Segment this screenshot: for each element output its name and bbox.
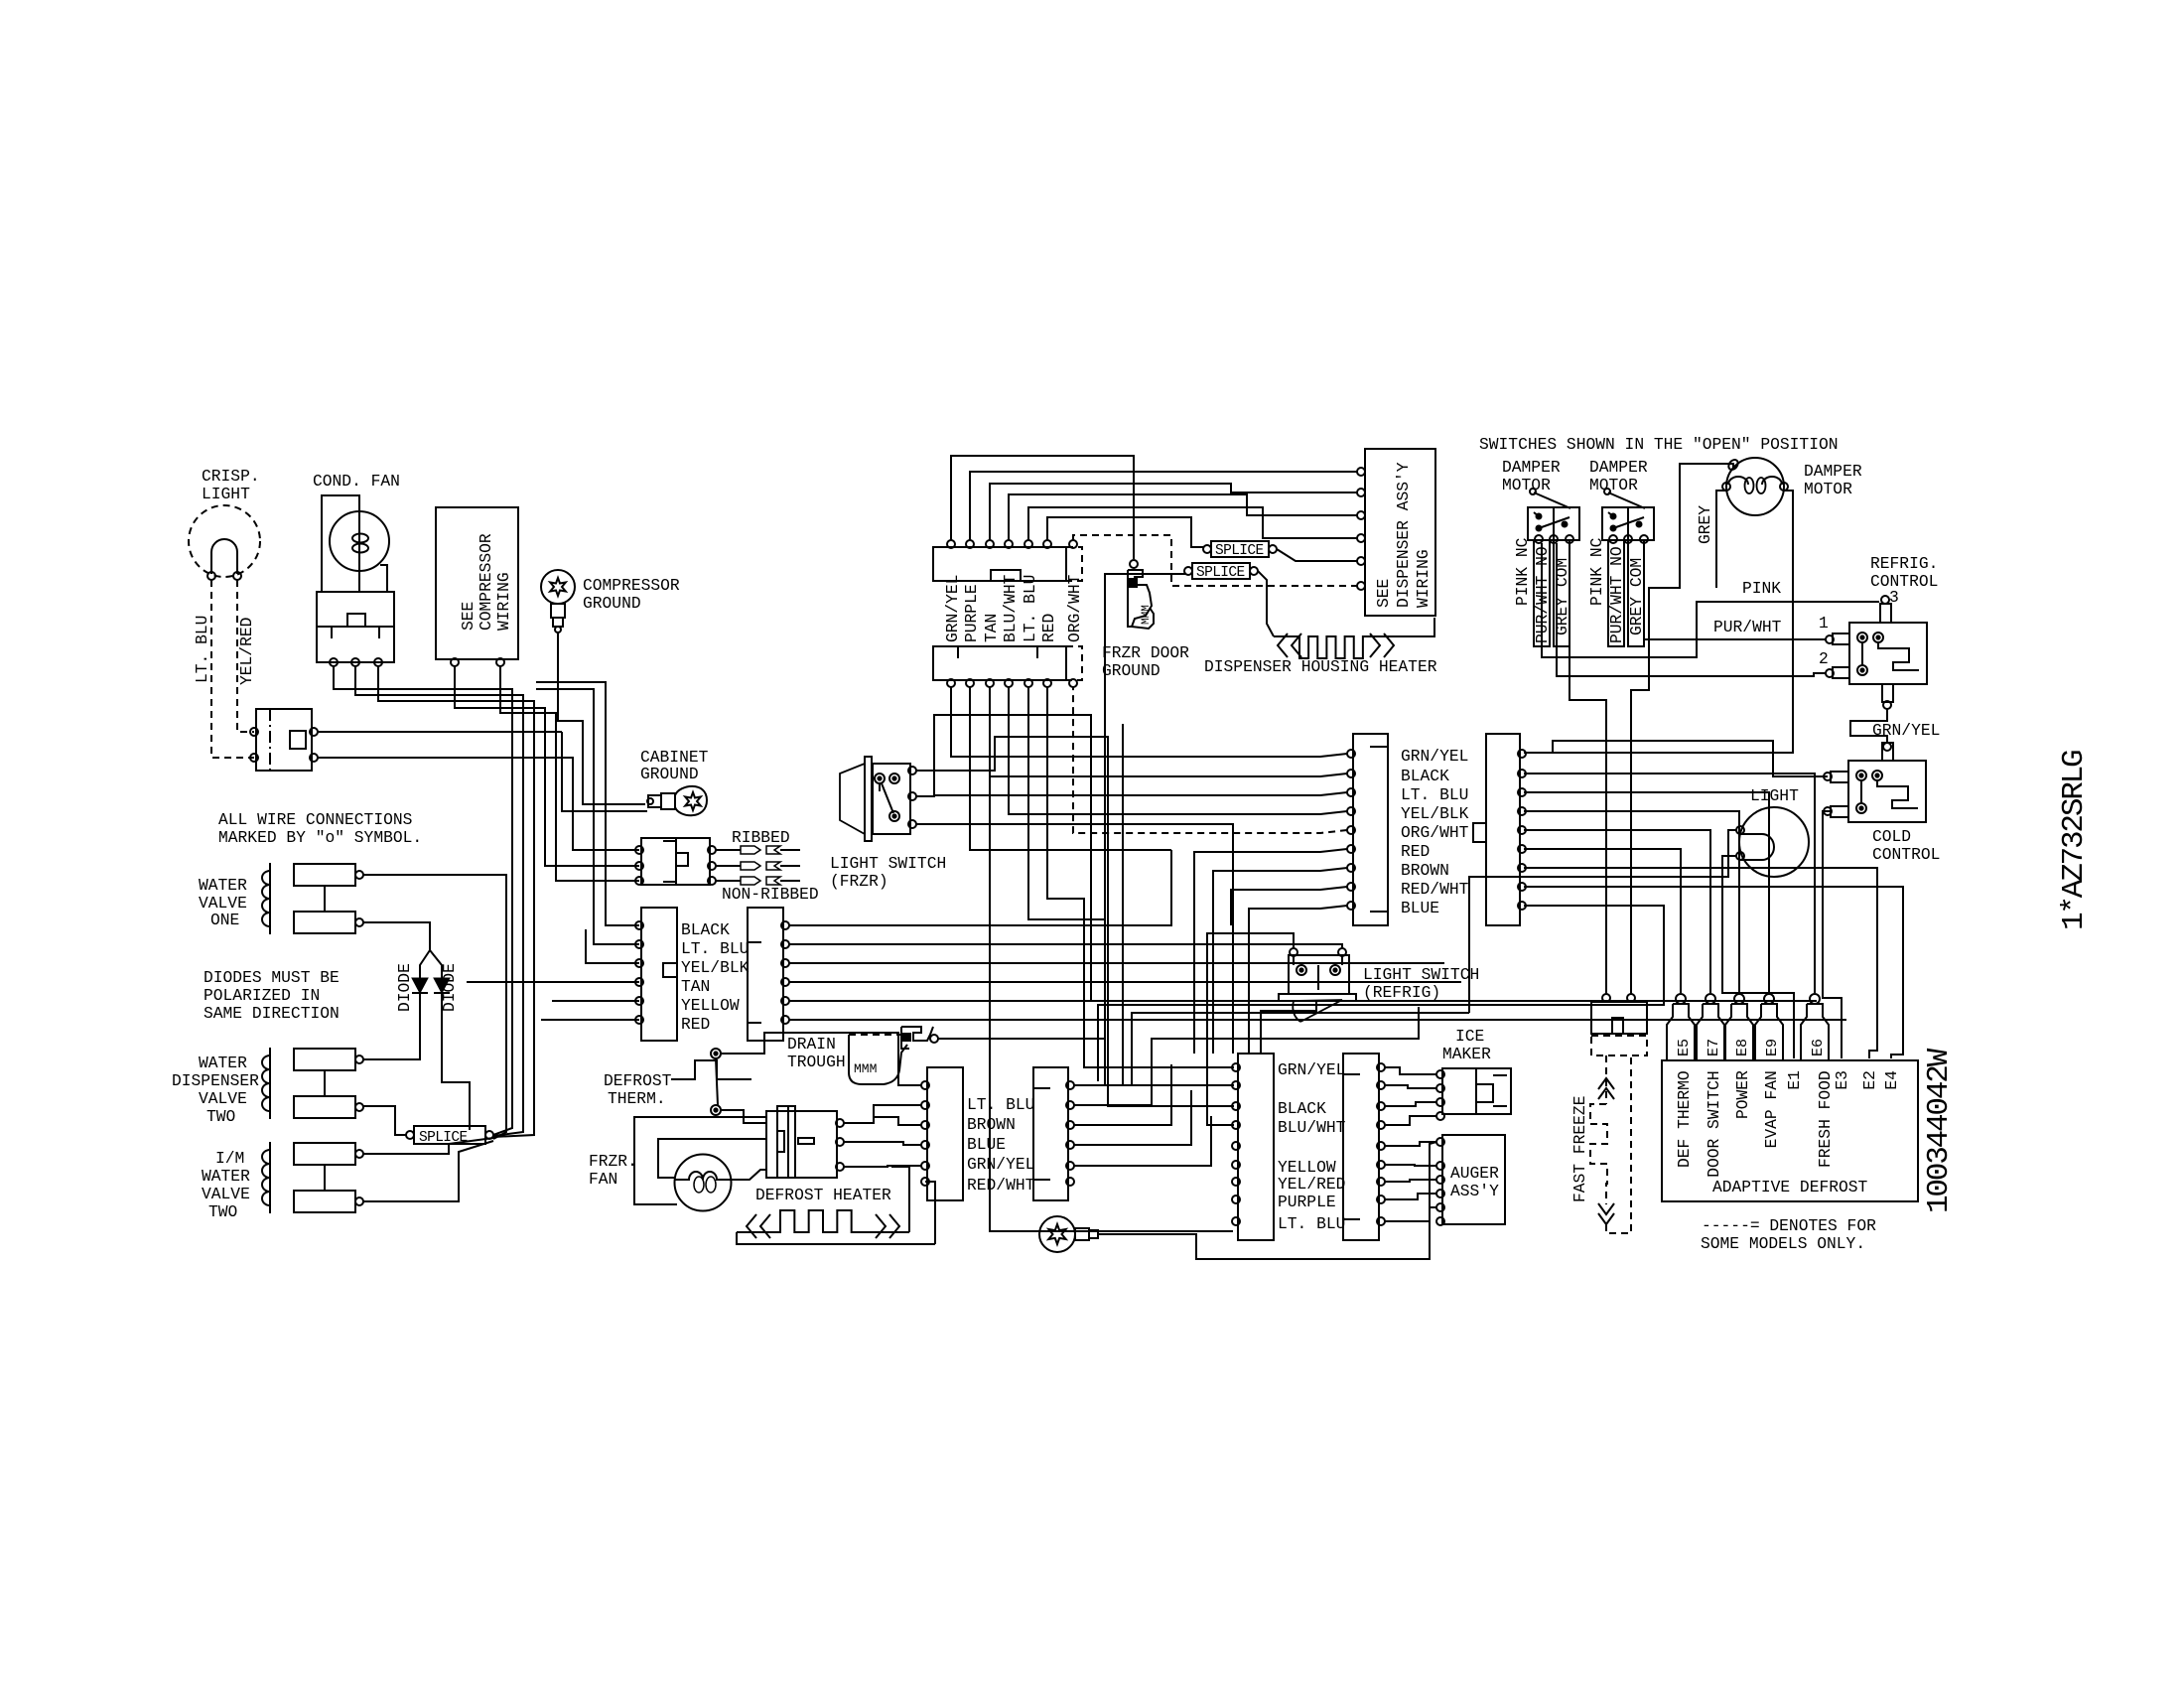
wire F icemaker3 (1385, 1102, 1436, 1106)
connector C pin (921, 1081, 929, 1089)
see dispenser pin (1357, 534, 1365, 542)
connector D pin (1066, 1081, 1074, 1089)
connector B pin (1518, 826, 1526, 834)
svg-text:(REFRIG): (REFRIG) (1363, 983, 1440, 1002)
relay terminal 1 (330, 658, 338, 666)
drain trough bowl (849, 1035, 907, 1084)
spade terminal E5 (1676, 994, 1686, 1004)
connector col2 pin (781, 959, 789, 967)
auger assy box (1442, 1135, 1505, 1224)
wire grnyel jog (1850, 709, 1887, 743)
cold control box (1848, 761, 1926, 822)
compressor ground lug (541, 570, 575, 604)
refrig control stub1 (1833, 633, 1849, 644)
cabinet ground lug (675, 786, 707, 815)
wire assembly t2 to C (844, 1142, 921, 1145)
wire H t6 E5 (1524, 849, 1681, 993)
wire col2 yellow (789, 1000, 1817, 1002)
connector B pin (1518, 807, 1526, 815)
see compressor wiring box (436, 507, 518, 659)
light switch refrig (1289, 955, 1349, 994)
wire grnyel riser (951, 456, 1134, 559)
i/m water valve two (269, 1142, 271, 1213)
svg-text:ORG/WHT: ORG/WHT (1065, 574, 1084, 642)
svg-text:COLD: COLD (1872, 827, 1911, 846)
connector E pin (1232, 1196, 1240, 1203)
svg-text:POWER: POWER (1733, 1070, 1752, 1119)
svg-text:RED: RED (1039, 614, 1058, 642)
wire D ltblu (1074, 1013, 1469, 1085)
connector mid-top pin dashed (1069, 540, 1077, 548)
connector mid-top pin (1005, 540, 1013, 548)
svg-text:100344042W: 100344042W (1922, 1048, 1957, 1213)
wire col1 tan feed (467, 981, 639, 983)
wire relay t3 (378, 666, 534, 1137)
fast freeze dashed box (1591, 1036, 1647, 1055)
svg-text:RED/WHT: RED/WHT (967, 1176, 1035, 1195)
spade terminal E8 (1734, 994, 1744, 1004)
svg-text:LIGHT SWITCH: LIGHT SWITCH (1363, 965, 1479, 984)
cold control stub1 (1831, 772, 1848, 782)
connector col2 pin (781, 978, 789, 986)
svg-text:ONE: ONE (210, 911, 239, 929)
connector mid-top box (933, 547, 1066, 581)
spade terminal E6 (1810, 994, 1820, 1004)
damper pointer dot 1 (1530, 489, 1536, 494)
wire A grnyel (951, 687, 1347, 757)
diode right (434, 978, 450, 993)
svg-text:AUGER: AUGER (1450, 1164, 1499, 1183)
svg-text:ALL WIRE CONNECTIONS: ALL WIRE CONNECTIONS (218, 810, 412, 829)
wire light top (1469, 830, 1736, 1013)
svg-text:BROWN: BROWN (1401, 861, 1449, 880)
damper pointer 2 (1608, 492, 1645, 508)
svg-text:SPLICE: SPLICE (1215, 543, 1264, 559)
defrost heater assembly terminal 1 (836, 1119, 844, 1127)
fast freeze dashed wire bottom (1606, 1055, 1631, 1233)
see dispenser pin (1357, 582, 1365, 590)
svg-text:YEL/BLK: YEL/BLK (1401, 804, 1469, 823)
wire A red (1194, 849, 1347, 1054)
wire D grnyel (1074, 1090, 1191, 1145)
wire purwht (1644, 543, 1826, 639)
wire diode X right (430, 950, 442, 978)
wire cold to E3 (1823, 811, 1842, 1058)
auger pin (1436, 1162, 1444, 1170)
connector col1 pin (635, 940, 643, 948)
see dispenser assy wiring box (1365, 449, 1435, 616)
svg-text:E9: E9 (1764, 1039, 1781, 1056)
wire motor right to H (1524, 491, 1793, 753)
auger pin (1436, 1190, 1444, 1197)
wire assembly t3 to C (844, 1166, 921, 1167)
svg-text:PUR/WHT: PUR/WHT (1713, 618, 1782, 636)
relay terminal 2 (351, 658, 359, 666)
svg-text:BLU/WHT: BLU/WHT (1001, 574, 1020, 642)
wire switch frzr t3 (916, 824, 1233, 1054)
wire mesh v 1131 (1123, 724, 1234, 1085)
svg-text:DEFROST: DEFROST (604, 1071, 672, 1090)
wire crisp relay out2 (318, 758, 639, 850)
wire drop tan (1008, 687, 1010, 814)
svg-text:GROUND: GROUND (583, 594, 641, 613)
wire purple riser (970, 472, 1358, 540)
connector A pin (1347, 864, 1355, 872)
refrig control stub2 (1833, 667, 1849, 678)
connector col1 pin (635, 997, 643, 1005)
connector E pin (1232, 1161, 1240, 1169)
connector mid-top dashed ext (1066, 547, 1082, 581)
svg-text:GRN/YEL: GRN/YEL (1872, 721, 1940, 740)
svg-text:GROUND: GROUND (640, 765, 699, 783)
damper motor coil (1726, 458, 1784, 515)
svg-text:RED/WHT: RED/WHT (1401, 880, 1469, 899)
connector F pin (1377, 1196, 1385, 1203)
wire col1 yelblk feed (586, 929, 639, 963)
see dispenser pin (1357, 468, 1365, 476)
connector F pin (1377, 1081, 1385, 1089)
svg-text:PURPLE: PURPLE (962, 584, 981, 642)
svg-text:SPLICE: SPLICE (419, 1130, 468, 1146)
wire valve two to splice (363, 1106, 406, 1135)
wire frzr fan mid (658, 1139, 766, 1178)
connector E pin (1232, 1063, 1240, 1071)
wire A yelblk (1009, 687, 1347, 814)
wire YEL/RED dashed from crisp light (237, 580, 254, 732)
wire drop purple (970, 687, 1171, 850)
svg-text:SOME MODELS ONLY.: SOME MODELS ONLY. (1701, 1234, 1865, 1253)
connector B pin (1518, 864, 1526, 872)
connector B pin (1518, 788, 1526, 796)
wire pink (1542, 543, 1879, 657)
connector B pin (1518, 770, 1526, 777)
svg-text:PINK: PINK (1742, 579, 1781, 598)
terminal block pin left (635, 846, 643, 854)
connector mid-bottom pin (1024, 679, 1032, 687)
svg-text:DIODES MUST BE: DIODES MUST BE (204, 968, 340, 987)
connector A pin (1347, 826, 1355, 834)
wire switch refrig left (1207, 933, 1294, 1125)
wire H t9 (1098, 906, 1664, 1081)
frzr door ground clip (1128, 570, 1154, 629)
defrost thermostat (671, 1060, 751, 1079)
svg-text:MOTOR: MOTOR (1502, 476, 1551, 494)
wire col1 black feed (536, 682, 639, 925)
refrig control box (1849, 623, 1927, 684)
wire col1 red feed (541, 1019, 639, 1021)
defrost heater element (737, 1210, 909, 1232)
connector col2 pin (781, 940, 789, 948)
svg-text:WIRING: WIRING (1414, 549, 1433, 608)
svg-text:MMM: MMM (854, 1061, 877, 1076)
svg-text:SAME DIRECTION: SAME DIRECTION (204, 1004, 340, 1023)
ribbed connector pair (741, 877, 760, 885)
wire C ltblu (721, 1033, 921, 1085)
svg-text:LIGHT: LIGHT (1750, 786, 1799, 805)
svg-text:YEL/BLK: YEL/BLK (681, 958, 750, 977)
wire assembly t1 to C (844, 1105, 921, 1123)
wire H t7 E2 (1524, 868, 1877, 1058)
svg-text:DEF THERMO: DEF THERMO (1675, 1070, 1694, 1168)
wire compressor ground down (558, 633, 645, 804)
wire A redwht (1231, 887, 1347, 925)
connector C pin (921, 1178, 929, 1186)
terminal block pin left (635, 862, 643, 870)
svg-text:FRZR.: FRZR. (589, 1152, 637, 1171)
connector A pin (1347, 845, 1355, 853)
svg-text:FAST FREEZE: FAST FREEZE (1570, 1096, 1589, 1202)
wire H t4 E8 (1524, 811, 1739, 993)
wire F auger2 (1385, 1165, 1436, 1166)
svg-text:YEL/RED: YEL/RED (237, 618, 256, 685)
svg-text:WATER: WATER (199, 1054, 247, 1072)
svg-text:E8: E8 (1734, 1039, 1751, 1056)
svg-text:GRN/YEL: GRN/YEL (1278, 1060, 1345, 1079)
wire light bottom (1722, 856, 1794, 1058)
damper pointer dot 2 (1604, 489, 1610, 494)
svg-text:I/M: I/M (215, 1149, 244, 1168)
connector D pin (1066, 1162, 1074, 1170)
splice box left (414, 1126, 485, 1144)
wire D redwht (1074, 1116, 1211, 1166)
connector col2 pin (781, 1016, 789, 1024)
svg-text:2: 2 (1819, 649, 1829, 668)
wire F icemaker1 (1385, 1067, 1436, 1074)
connector F box (1343, 1054, 1379, 1240)
water dispenser valve two (269, 1048, 271, 1119)
connector col1 box (641, 908, 677, 1041)
wire crisp relay out1 (318, 731, 562, 733)
svg-text:MMM: MMM (1141, 605, 1153, 625)
svg-text:-----= DENOTES FOR: -----= DENOTES FOR (1702, 1216, 1876, 1235)
light switch frzr (865, 757, 872, 841)
svg-text:ADAPTIVE DEFROST: ADAPTIVE DEFROST (1712, 1178, 1868, 1196)
connector mid-bottom pin (966, 679, 974, 687)
ice maker box (1442, 1068, 1511, 1114)
damper switch 2 (1602, 507, 1654, 540)
svg-text:REFRIG.: REFRIG. (1870, 554, 1938, 573)
svg-text:DISPENSER: DISPENSER (172, 1071, 259, 1090)
wire bundle to col1 yelblk (454, 707, 456, 709)
svg-text:DISPENSER ASS'Y: DISPENSER ASS'Y (1394, 462, 1413, 608)
wire grey left (1716, 491, 1726, 588)
connector C pin (921, 1141, 929, 1149)
svg-text:DEFROST HEATER: DEFROST HEATER (755, 1186, 891, 1204)
svg-text:DISPENSER HOUSING HEATER: DISPENSER HOUSING HEATER (1204, 657, 1437, 676)
svg-text:LIGHT SWITCH: LIGHT SWITCH (830, 854, 946, 873)
wire F auger1 (1385, 1142, 1436, 1146)
svg-text:CONTROL: CONTROL (1870, 572, 1938, 591)
connector mid-top pin (1043, 540, 1051, 548)
svg-text:PINK NC: PINK NC (1587, 537, 1606, 606)
connector F pin (1377, 1121, 1385, 1129)
wire bluwht riser (1009, 494, 1358, 540)
wire compressor box t2 (500, 666, 639, 881)
wire mesh splice2 vertical (1105, 574, 1185, 919)
svg-text:SEE: SEE (459, 602, 478, 631)
svg-text:GRN/YEL: GRN/YEL (1401, 747, 1468, 766)
wire tan riser (990, 484, 1358, 540)
svg-text:BLU/WHT: BLU/WHT (1278, 1118, 1346, 1137)
svg-text:BLACK: BLACK (1278, 1099, 1326, 1118)
connector A pin (1347, 807, 1355, 815)
svg-text:WATER: WATER (199, 876, 247, 895)
fast freeze dashed zigzag (1590, 1104, 1607, 1204)
connector B pin (1518, 750, 1526, 758)
svg-text:GRN/YEL: GRN/YEL (967, 1155, 1034, 1174)
svg-text:LT. BLU: LT. BLU (1278, 1214, 1345, 1233)
wire diode left to valve two (363, 993, 420, 1059)
svg-text:COND. FAN: COND. FAN (313, 472, 400, 491)
wire relay t2 (355, 666, 523, 1136)
svg-text:LT. BLU: LT. BLU (681, 939, 749, 958)
svg-text:PURPLE: PURPLE (1278, 1193, 1336, 1211)
connector A pin (1347, 750, 1355, 758)
connector col1 pin (635, 978, 643, 986)
svg-text:YEL/RED: YEL/RED (1278, 1175, 1345, 1194)
wire col2 black (789, 850, 1171, 925)
svg-text:POLARIZED IN: POLARIZED IN (204, 986, 320, 1005)
connector F pin (1377, 1102, 1385, 1110)
splice box mid 1 (1211, 541, 1269, 557)
svg-text:CRISP.: CRISP. (202, 467, 260, 486)
light bulb (1739, 807, 1809, 877)
connector E box (1238, 1054, 1274, 1240)
connector col1 pin (635, 959, 643, 967)
svg-text:TROUGH: TROUGH (787, 1053, 846, 1071)
svg-text:LT. BLU: LT. BLU (967, 1095, 1034, 1114)
svg-text:E1: E1 (1785, 1070, 1804, 1090)
auger pin (1436, 1138, 1444, 1146)
svg-text:VALVE: VALVE (199, 1089, 247, 1108)
wire F icemaker2 (1385, 1085, 1436, 1088)
svg-text:GREY: GREY (1696, 505, 1714, 544)
svg-text:BLACK: BLACK (1401, 767, 1449, 785)
wire col2 yelblk (789, 962, 1444, 964)
connector col2 box (748, 908, 783, 1041)
drain trough clip (901, 1027, 933, 1049)
svg-text:LT. BLU: LT. BLU (1401, 785, 1468, 804)
wire valve one top to splice (363, 875, 506, 1139)
fast freeze arrow up (1598, 1078, 1614, 1099)
connector C pin (921, 1121, 929, 1129)
wire red riser (1047, 517, 1203, 547)
wire col2 ltblu (789, 944, 1342, 948)
adaptive defrost board (1662, 1060, 1918, 1201)
connector D pin (1066, 1101, 1074, 1109)
connector A pin (1347, 902, 1355, 910)
wire splice2 out (1258, 571, 1274, 636)
connector mid-bottom pin (1005, 679, 1013, 687)
svg-text:LT. BLU: LT. BLU (1021, 575, 1039, 642)
wire D blue (1074, 1064, 1171, 1125)
connector col1 pin (635, 1016, 643, 1024)
wire A orgwht dashed (1073, 687, 1347, 833)
refrig control stub top (1880, 604, 1891, 623)
svg-text:DAMPER: DAMPER (1502, 458, 1561, 477)
svg-text:BROWN: BROWN (967, 1115, 1016, 1134)
svg-text:TAN: TAN (982, 614, 1001, 642)
spade terminal E7 (1706, 994, 1715, 1004)
connector E pin (1232, 1121, 1240, 1129)
splice box mid 2 (1192, 563, 1250, 579)
wire F auger3 (1385, 1180, 1436, 1182)
wire drain trough (938, 1038, 1105, 1040)
connector mid-top pin (966, 540, 974, 548)
wire drop ltblu (1028, 687, 1105, 1085)
connector A pin (1347, 770, 1355, 777)
wire H t3 E9 (1524, 792, 1769, 993)
water valve one (269, 863, 271, 934)
svg-text:(FRZR): (FRZR) (830, 872, 888, 891)
terminal block pin right (708, 877, 716, 885)
wire orgwht riser dashed (1073, 535, 1358, 586)
wire A blue (1249, 906, 1347, 1054)
wire ltblu riser (1028, 507, 1358, 540)
defrost heater assembly terminal 2 (836, 1138, 844, 1146)
svg-text:1*AZ732SRLG: 1*AZ732SRLG (2057, 751, 2092, 930)
svg-text:MARKED BY "o" SYMBOL.: MARKED BY "o" SYMBOL. (218, 828, 422, 847)
wire frzr fan loop top (634, 1117, 766, 1204)
connector F pin (1377, 1142, 1385, 1150)
spade terminal E9 (1764, 994, 1774, 1004)
connector mid-top pin (986, 540, 994, 548)
connector D pin (1066, 1121, 1074, 1129)
connector mid-bottom pin (986, 679, 994, 687)
fast freeze dashed wire left upper (1605, 1055, 1607, 1104)
wire frzr fan right (732, 1170, 766, 1180)
svg-text:PUR/WHT NO: PUR/WHT NO (1607, 546, 1626, 643)
damper switch 1 (1528, 507, 1579, 540)
wire drop red (1047, 687, 1234, 1067)
svg-text:TAN: TAN (681, 977, 710, 996)
svg-text:TWO: TWO (208, 1202, 237, 1221)
svg-text:LT. BLU: LT. BLU (193, 616, 211, 683)
connector F pin (1377, 1063, 1385, 1071)
connector B pin (1518, 902, 1526, 910)
svg-text:E2: E2 (1860, 1070, 1879, 1090)
connector C pin (921, 1162, 929, 1170)
frzr fan motor (675, 1155, 732, 1211)
svg-text:RIBBED: RIBBED (732, 828, 790, 847)
wire im valve bottom fan (363, 1141, 493, 1201)
svg-text:E6: E6 (1810, 1039, 1827, 1056)
fast freeze connector (1591, 1002, 1647, 1034)
wire heater right lead (925, 1182, 935, 1244)
svg-text:VALVE: VALVE (202, 1185, 250, 1203)
auger pin (1436, 1217, 1444, 1225)
ribbed connector pair (741, 862, 760, 870)
ice maker pin (1436, 1070, 1444, 1078)
wire im valve top fan (363, 1138, 493, 1154)
connector mid-bottom dashed ext (1066, 646, 1082, 680)
svg-text:DAMPER: DAMPER (1804, 462, 1862, 481)
connector E pin (1232, 1102, 1240, 1110)
fast freeze arrow down (1598, 1203, 1614, 1224)
cold control stub top (1883, 743, 1891, 751)
connector D box (1033, 1067, 1068, 1200)
svg-text:COMPRESSOR: COMPRESSOR (583, 576, 680, 595)
svg-text:WATER: WATER (202, 1167, 250, 1186)
connector E pin (1232, 1178, 1240, 1186)
wire A brown (1213, 868, 1347, 1054)
svg-text:TWO: TWO (206, 1107, 235, 1126)
relay terminal 3 (374, 658, 382, 666)
svg-text:E4: E4 (1882, 1070, 1901, 1090)
wire H t8 E4 (1524, 887, 1903, 1058)
connector B pin (1518, 845, 1526, 853)
terminal block ribbed (641, 838, 710, 885)
